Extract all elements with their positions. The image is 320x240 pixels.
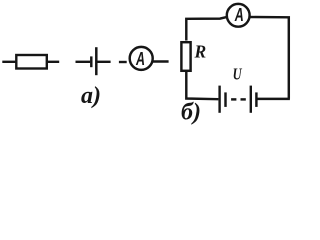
battery cell 2 long plate (circuit b) [250,86,252,113]
wire right lead of battery cell (circuit a) [97,61,110,63]
battery cell long plate (circuit a) [95,47,98,75]
ammeter A2 circle (circuit b) [227,4,250,27]
wire right lead of ammeter (circuit a) [153,60,169,62]
svg-text:б): б) [181,100,201,126]
ammeter A1 circle (circuit a) [130,47,153,70]
wire left lead of resistor (circuit a) [2,61,16,63]
wire left lead of battery cell (circuit a) [76,61,91,63]
svg-text:A: A [234,5,244,25]
wire dash before ammeter (circuit a) [119,61,127,63]
resistor R (circuit b) [181,42,190,71]
battery cell 1 short plate (circuit b) [224,92,226,107]
wire dash 2 between cells (circuit b) [241,98,246,100]
svg-text:R: R [194,41,207,61]
svg-text:U: U [233,64,243,83]
wire bottom-right of loop (circuit b) [258,98,290,100]
wire top-left of loop (circuit b) [186,17,226,40]
wire right lead of resistor (circuit a) [47,61,59,63]
battery cell short plate (circuit a) [90,56,92,67]
resistor (circuit a) [16,55,47,69]
wire top-right of loop (circuit b) [250,17,289,99]
wire bottom-left of loop (circuit b) [186,72,218,99]
svg-text:а): а) [81,83,101,109]
battery cell 1 long plate (circuit b) [218,86,220,113]
battery cell 2 short plate (circuit b) [255,92,257,107]
svg-text:A: A [135,49,145,69]
wire dash 1 between cells (circuit b) [231,98,236,100]
